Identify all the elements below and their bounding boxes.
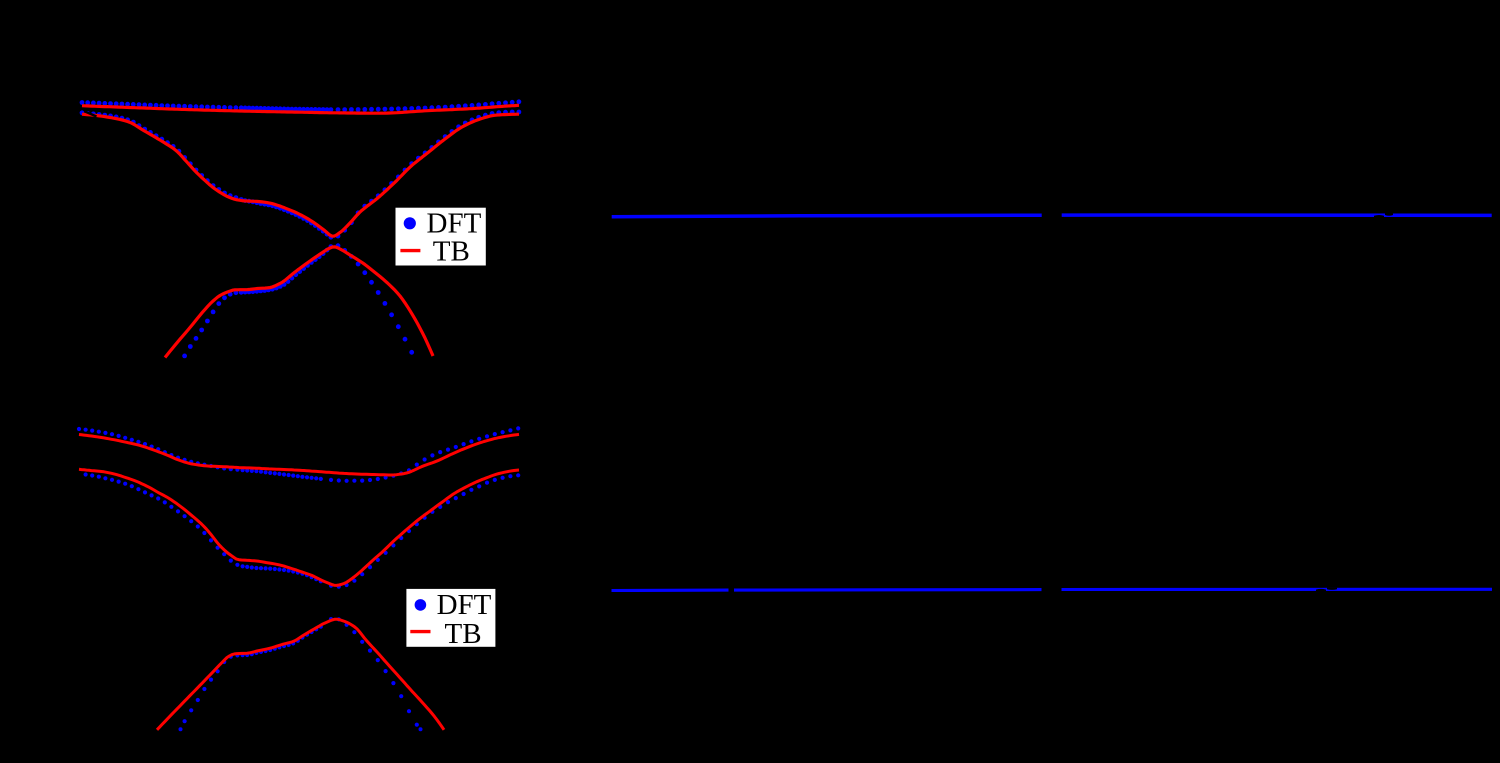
svg-text:DFT: DFT (437, 589, 492, 621)
svg-text:TB: TB (445, 618, 482, 650)
svg-text:TB: TB (433, 236, 470, 268)
